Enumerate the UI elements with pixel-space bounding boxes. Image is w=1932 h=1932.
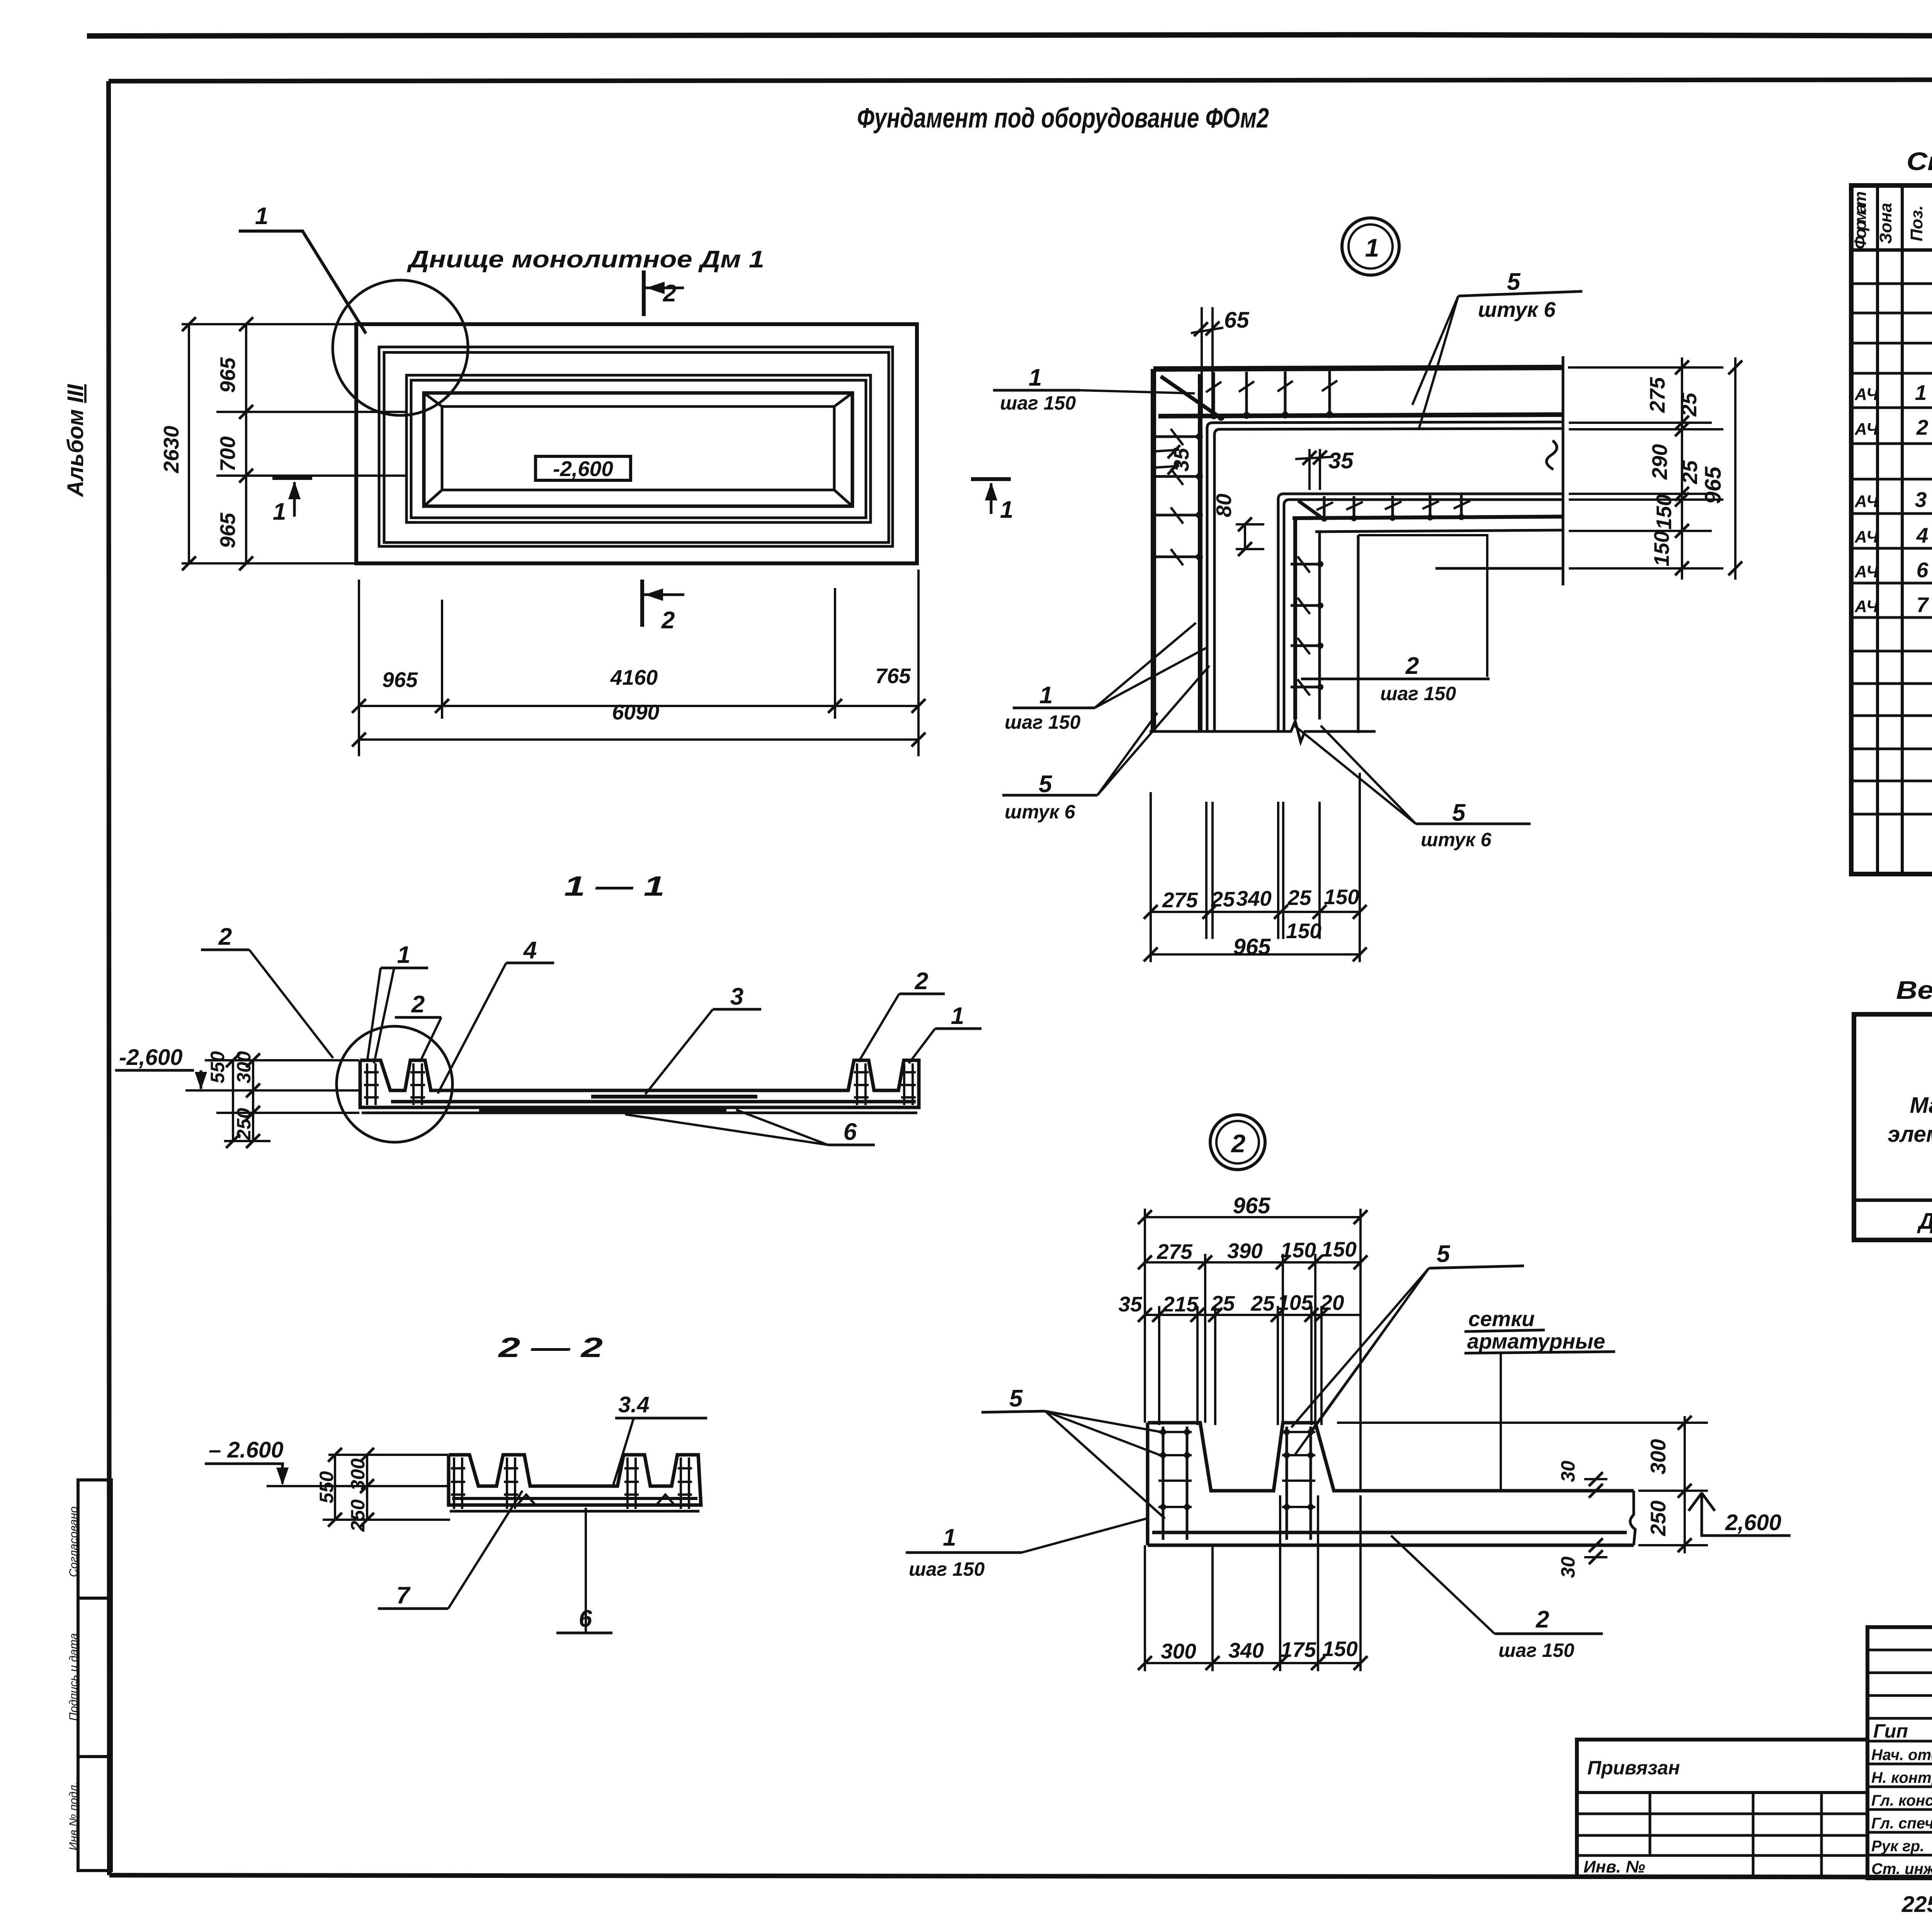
svg-text:1: 1: [1029, 364, 1042, 391]
inner wall top rebar: [1293, 517, 1562, 518]
svg-text:Марка: Марка: [1910, 1093, 1932, 1118]
dim 30 lower: [1584, 1556, 1607, 1558]
DETAIL2: [981, 1115, 1791, 1671]
detail mark circle 2: [1210, 1115, 1265, 1170]
svg-text:7: 7: [396, 1582, 411, 1609]
pit floor: [442, 406, 834, 490]
svg-text:300: 300: [1161, 1639, 1196, 1663]
svg-text:шаг 150: шаг 150: [1498, 1639, 1574, 1661]
svg-text:340: 340: [1236, 886, 1272, 910]
svg-text:250: 250: [347, 1499, 369, 1532]
svg-text:4: 4: [1916, 523, 1929, 547]
привязан box: [1577, 1740, 1867, 1878]
slab bottom second line: [362, 1112, 917, 1114]
inner corner diagonal: [1298, 501, 1325, 520]
wall inner line b: [411, 380, 866, 518]
svg-text:25: 25: [1211, 1291, 1235, 1315]
svg-text:5: 5: [1039, 771, 1053, 798]
svg-text:1 — 1: 1 — 1: [564, 871, 665, 902]
section 2-2 slab bottom line: [450, 1510, 699, 1513]
slab mesh bar a: [591, 1095, 757, 1099]
svg-text:4160: 4160: [610, 665, 658, 689]
wall outer left face: [1151, 369, 1156, 731]
steel table main horizontals: [1854, 1054, 1932, 1200]
section 2-2 profile outline: [449, 1455, 701, 1505]
svg-text:550: 550: [207, 1051, 228, 1083]
svg-text:6: 6: [1917, 558, 1929, 582]
top rebar hooks: [1214, 371, 1330, 418]
wall top inner face pair: [1207, 422, 1562, 731]
leader 1 to detail circle: [239, 231, 366, 333]
leader 2 шаг 150: [1358, 535, 1487, 677]
PLANVIEW: [159, 203, 1013, 756]
spec table header bottom: [1851, 248, 1932, 252]
STEELTABLE: [1854, 976, 1932, 1240]
dim row2 detail2: [1205, 1254, 1315, 1423]
section 1-1 left extension lines: [185, 1060, 359, 1141]
dim 65 top: [1191, 307, 1223, 417]
dim 35 inner: [1295, 449, 1334, 490]
svg-text:шаг 150: шаг 150: [909, 1558, 985, 1580]
svg-text:1: 1: [951, 1003, 964, 1029]
detail2 left face: [1146, 1423, 1150, 1545]
detail2 profile outline: [1148, 1423, 1634, 1491]
svg-text:35: 35: [1118, 1292, 1143, 1316]
svg-text:7: 7: [1917, 593, 1929, 617]
wall outer line a: [379, 347, 893, 546]
svg-text:2: 2: [1231, 1129, 1246, 1158]
svg-text:2: 2: [915, 968, 928, 995]
inner wall top lower line: [1315, 530, 1562, 532]
bottom dim extension lines: [359, 570, 918, 756]
svg-text:2: 2: [1536, 1606, 1549, 1633]
dim ticks left: [182, 317, 253, 570]
svg-text:штук 6: штук 6: [1005, 801, 1076, 823]
svg-text:965: 965: [382, 668, 418, 692]
bottom dim extension lines: [1151, 773, 1360, 962]
svg-text:Рук гр.: Рук гр.: [1871, 1838, 1924, 1855]
svg-text:25: 25: [1678, 460, 1702, 485]
svg-text:1: 1: [397, 942, 410, 968]
dim line detail1 segments: [1681, 357, 1683, 580]
svg-text:1: 1: [255, 203, 268, 230]
spec table column lines: [1878, 185, 1932, 874]
dim line 965-700-965: [245, 324, 247, 563]
right termination line: [1562, 356, 1565, 585]
detail2 bottom dims: [1145, 1495, 1361, 1671]
bottom dim line row2: [359, 738, 918, 741]
svg-text:Гл. спеч.: Гл. спеч.: [1871, 1815, 1932, 1832]
signature table rows: [1867, 1650, 1932, 1855]
spec table border: [1851, 185, 1932, 874]
svg-text:шаг 150: шаг 150: [1000, 392, 1076, 414]
svg-text:шаг 150: шаг 150: [1380, 683, 1456, 704]
svg-text:25: 25: [1211, 887, 1235, 911]
detail2 slab mesh: [1152, 1531, 1627, 1534]
svg-text:шаг 150: шаг 150: [1005, 711, 1080, 733]
svg-text:1: 1: [1039, 682, 1053, 709]
dim 30 upper: [1584, 1478, 1607, 1480]
detail2 rebar u1: [1163, 1427, 1187, 1540]
svg-text:Спецификация днища монолитно: Спецификация днища монолитного Дм 1: [1906, 147, 1932, 175]
svg-text:– 2.600: – 2.600: [209, 1437, 284, 1463]
svg-text:150: 150: [1324, 885, 1359, 909]
svg-text:30: 30: [1557, 1461, 1579, 1482]
pit rim: [424, 393, 852, 506]
svg-text:80: 80: [1212, 493, 1236, 517]
upstand rebar 4: [901, 1063, 916, 1105]
section 1-1 profile outline: [360, 1060, 919, 1107]
svg-text:2: 2: [663, 280, 676, 307]
svg-text:-2,600: -2,600: [119, 1045, 182, 1070]
section detail circle: [337, 1026, 452, 1142]
section 2-2 rebar u2: [504, 1458, 518, 1509]
svg-text:965: 965: [1233, 934, 1271, 959]
svg-text:150: 150: [1321, 1237, 1357, 1261]
svg-text:Фундамент под оборудование: Фундамент под оборудование ФОм2: [857, 103, 1269, 134]
svg-text:150: 150: [1650, 531, 1673, 566]
svg-text:1: 1: [1365, 233, 1379, 262]
svg-text:6: 6: [844, 1119, 857, 1145]
wall outer line b: [384, 352, 889, 543]
hatch triangle b: [657, 1495, 674, 1504]
frame left line: [109, 81, 109, 1875]
svg-text:250: 250: [233, 1108, 255, 1141]
break squiggle right: [1546, 440, 1557, 469]
svg-text:Формат: Формат: [1851, 191, 1870, 249]
upstand rebar 2: [410, 1063, 425, 1105]
detail2 slab bottom: [1148, 1544, 1634, 1547]
svg-text:105: 105: [1277, 1291, 1313, 1315]
detail mark circle 1: [1342, 218, 1399, 275]
detail2 right dims: [1337, 1423, 1708, 1545]
DETAIL1: [993, 218, 1742, 962]
svg-text:275: 275: [1156, 1240, 1193, 1264]
section 2-2 extension lines: [267, 1455, 450, 1520]
svg-text:Привязан: Привязан: [1587, 1757, 1680, 1779]
svg-text:сетки: сетки: [1468, 1307, 1535, 1331]
inner wall left hooks: [1291, 564, 1322, 687]
pit rim face: [1357, 535, 1360, 733]
svg-text:275: 275: [1162, 888, 1198, 912]
svg-text:25: 25: [1250, 1291, 1275, 1315]
frame bottom line: [109, 1875, 1932, 1878]
section 2-2 rebar u4: [678, 1458, 692, 1509]
svg-text:390: 390: [1227, 1239, 1263, 1263]
svg-text:25: 25: [1287, 886, 1312, 910]
svg-text:1: 1: [1915, 381, 1927, 405]
wall inner line a: [406, 375, 871, 522]
left grid columns: [1650, 1793, 1821, 1878]
svg-text:4: 4: [523, 937, 537, 964]
bottom cut line with break: [1150, 721, 1376, 742]
svg-text:150: 150: [1652, 494, 1676, 530]
svg-text:765: 765: [875, 664, 911, 688]
slab outer edge: [356, 324, 917, 563]
signature table border: [1867, 1627, 1932, 1878]
svg-text:1: 1: [273, 498, 286, 525]
svg-text:3.4: 3.4: [618, 1392, 650, 1417]
svg-text:965: 965: [216, 357, 240, 393]
svg-text:250: 250: [1646, 1500, 1670, 1536]
dim 80: [1236, 524, 1264, 549]
svg-text:35: 35: [1328, 448, 1354, 473]
section 2-2 rebar u3: [624, 1458, 639, 1509]
svg-text:Ведомость расхода стали на: Ведомость расхода стали на элемент, кг: [1896, 976, 1932, 1004]
svg-text:Зона: Зона: [1876, 203, 1895, 244]
svg-text:Гип: Гип: [1873, 1720, 1908, 1742]
bottom dim ticks: [1144, 905, 1367, 961]
SPECTABLE: [1851, 147, 1932, 874]
svg-text:5: 5: [1009, 1385, 1023, 1412]
svg-text:150: 150: [1281, 1238, 1316, 1262]
svg-text:300: 300: [1646, 1439, 1670, 1475]
left margin stamp boxes: [78, 1480, 111, 1598]
section 1-1 dim ticks: [226, 1053, 260, 1148]
svg-text:25: 25: [1677, 392, 1701, 417]
right dim extension lines: [1568, 367, 1723, 568]
outer top border line: [87, 35, 1932, 37]
svg-text:арматурные: арматурные: [1467, 1329, 1605, 1353]
svg-text:Поз.: Поз.: [1907, 205, 1926, 241]
pit chamfer corners: [424, 393, 852, 506]
dim line detail1 965: [1734, 357, 1736, 580]
left rebar hooks: [1156, 437, 1202, 557]
svg-text:65: 65: [1224, 308, 1249, 333]
detail2 rebar u2: [1287, 1427, 1311, 1540]
level mark box: [536, 456, 631, 480]
svg-text:700: 700: [216, 436, 240, 472]
svg-text:Согласовано: Согласовано: [67, 1507, 80, 1577]
svg-text:Ст. инж.: Ст. инж.: [1871, 1861, 1932, 1878]
inner wall top hooks: [1324, 495, 1461, 521]
svg-text:300: 300: [347, 1458, 369, 1491]
section 2-2 mesh line: [452, 1497, 697, 1500]
inner wall left rebar: [1293, 518, 1297, 719]
svg-text:6090: 6090: [612, 700, 660, 724]
bottom dim ticks: [352, 699, 925, 747]
svg-text:2: 2: [411, 991, 425, 1018]
svg-text:1: 1: [1000, 497, 1013, 523]
svg-text:965: 965: [216, 512, 240, 548]
svg-text:2: 2: [218, 923, 232, 950]
section 2-2 dim ticks: [328, 1448, 374, 1527]
svg-text:150: 150: [1286, 919, 1321, 943]
slab mesh bar b: [479, 1108, 726, 1112]
svg-text:Н. контр.: Н. контр.: [1871, 1769, 1932, 1786]
dim row3 detail2: [1159, 1306, 1321, 1425]
svg-text:215: 215: [1162, 1292, 1199, 1316]
dim ticks right: [1675, 361, 1742, 575]
spec table row lines: [1851, 284, 1932, 814]
wall left rebar: [1198, 374, 1202, 731]
svg-text:2 — 2: 2 — 2: [497, 1332, 603, 1363]
svg-text:290: 290: [1648, 444, 1672, 480]
svg-text:Инв.№ подл.: Инв.№ подл.: [67, 1782, 80, 1850]
svg-text:5: 5: [1437, 1241, 1451, 1267]
svg-text:300: 300: [233, 1051, 255, 1083]
svg-text:2: 2: [1405, 653, 1419, 679]
svg-text:Нач. отд.: Нач. отд.: [1871, 1747, 1932, 1764]
inner wall left line: [1318, 532, 1321, 719]
svg-text:340: 340: [1228, 1638, 1264, 1662]
section 2-2 rebar u1: [451, 1458, 465, 1509]
elevation 2.600 detail2: [1702, 1492, 1791, 1536]
section 2-2 dim lines: [335, 1455, 367, 1520]
svg-text:Днище монолитное Дм 1: Днище монолитное Дм 1: [406, 246, 764, 273]
svg-text:5: 5: [1507, 269, 1521, 295]
dim 35 left: [1155, 450, 1179, 468]
svg-text:элемента: элемента: [1888, 1122, 1932, 1147]
svg-text:175: 175: [1281, 1638, 1316, 1662]
svg-text:АЧ: АЧ: [1854, 527, 1879, 546]
svg-text:2630: 2630: [159, 425, 183, 473]
svg-text:штук 6: штук 6: [1421, 829, 1492, 850]
svg-text:Подпись и дата: Подпись и дата: [67, 1633, 80, 1721]
band bottom line right: [1435, 567, 1562, 570]
section mark 2 bottom: [640, 580, 644, 627]
slab mesh heavy line: [391, 1100, 916, 1104]
svg-text:АЧ: АЧ: [1854, 492, 1879, 511]
SECTION11: [115, 871, 981, 1148]
inner frame top line: [109, 79, 1932, 81]
svg-text:3: 3: [730, 983, 743, 1010]
section 1-1 dim lines: [233, 1060, 253, 1141]
SECTION22: [205, 1332, 1146, 1633]
svg-text:Инв. №: Инв. №: [1583, 1857, 1645, 1876]
svg-text:5: 5: [1452, 799, 1466, 826]
inner wall top face pair: [1278, 494, 1562, 731]
dim line 2630: [188, 324, 190, 563]
upstand rebar 1: [364, 1063, 379, 1105]
svg-text:965: 965: [1233, 1193, 1271, 1218]
svg-text:-2,600: -2,600: [553, 457, 613, 481]
svg-text:АЧ: АЧ: [1854, 562, 1879, 581]
section mark 1 left: [272, 476, 312, 480]
svg-text:Дм 1: Дм 1: [1917, 1209, 1932, 1234]
svg-text:965: 965: [1701, 466, 1726, 504]
bottom dim line row2: [1151, 953, 1360, 956]
upstand rebar 3: [854, 1063, 869, 1105]
section mark 1 right: [971, 477, 1011, 481]
svg-text:2: 2: [1916, 415, 1929, 439]
svg-text:22532-01: 22532-01: [1901, 1892, 1932, 1917]
svg-text:150: 150: [1322, 1637, 1358, 1661]
dim 965 detail2: [1145, 1209, 1361, 1491]
svg-text:550: 550: [316, 1471, 337, 1503]
bottom dim line row1: [1151, 911, 1360, 913]
section mark 2 top: [642, 270, 646, 316]
TITLEBLOCK: [1577, 1625, 1932, 1932]
wall top rebar: [1158, 415, 1562, 416]
svg-text:3: 3: [1915, 488, 1927, 512]
svg-text:Альбом III: Альбом III: [63, 384, 88, 498]
svg-text:35: 35: [1169, 447, 1193, 472]
svg-text:АЧ: АЧ: [1854, 420, 1879, 439]
svg-text:2: 2: [661, 607, 675, 634]
detail circle on corner: [333, 280, 468, 415]
svg-text:Гл. конст.: Гл. конст.: [1871, 1792, 1932, 1809]
left grid rows: [1577, 1814, 1867, 1855]
svg-text:штук 6: штук 6: [1478, 298, 1556, 321]
bottom dim line row1: [359, 705, 918, 707]
svg-text:АЧ: АЧ: [1854, 385, 1879, 404]
svg-text:АЧ: АЧ: [1854, 597, 1879, 616]
hatch triangle a: [518, 1495, 535, 1504]
svg-text:275: 275: [1645, 377, 1669, 413]
svg-text:1: 1: [943, 1524, 956, 1551]
steel table border: [1854, 1014, 1932, 1240]
svg-text:20: 20: [1320, 1291, 1344, 1315]
detail2 right break: [1630, 1491, 1635, 1545]
wall outer top face: [1153, 367, 1562, 369]
svg-text:30: 30: [1557, 1556, 1579, 1578]
svg-text:2,600: 2,600: [1725, 1510, 1781, 1535]
left dim extension lines: [182, 324, 406, 563]
top corner diagonal: [1161, 376, 1221, 418]
